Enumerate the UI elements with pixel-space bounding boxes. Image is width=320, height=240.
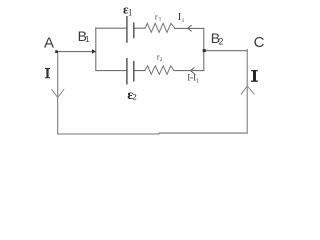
svg-text:1: 1 bbox=[85, 35, 90, 44]
svg-text:2: 2 bbox=[218, 36, 223, 46]
svg-text:C: C bbox=[254, 34, 265, 51]
svg-text:1: 1 bbox=[196, 78, 199, 84]
svg-text:A: A bbox=[44, 34, 54, 51]
svg-text:1: 1 bbox=[128, 7, 132, 17]
svg-text:r: r bbox=[155, 12, 158, 21]
svg-text:I: I bbox=[187, 73, 190, 83]
svg-text:1: 1 bbox=[182, 18, 185, 24]
svg-text:2: 2 bbox=[133, 92, 137, 102]
svg-text:2: 2 bbox=[160, 57, 163, 63]
svg-text:1: 1 bbox=[159, 17, 162, 23]
